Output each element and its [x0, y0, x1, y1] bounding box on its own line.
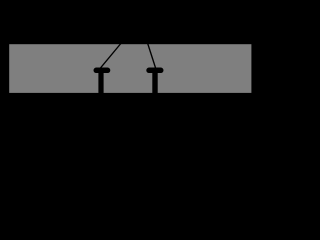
- leader line to right pin: [140, 19, 156, 69]
- right pin head: [146, 68, 163, 73]
- slab (gray bar): [9, 44, 251, 93]
- left pin stem: [98, 71, 103, 96]
- leader line to left pin: [100, 19, 141, 68]
- left pin head: [94, 68, 111, 73]
- right pin stem: [152, 71, 157, 96]
